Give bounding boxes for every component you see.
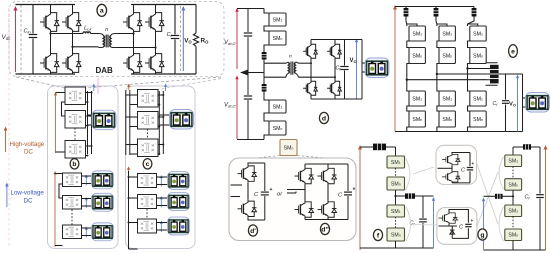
IGBT lower leg x=50.5 [40,52,59,74]
battery pod c-bottom 3 [168,217,190,235]
wire: d2 leg x=305 [304,164,306,167]
wire: d top bus [237,8,264,10]
battery pod c-top [170,110,194,130]
inductor LLk [83,32,91,34]
e col2 tap junction [436,73,438,75]
svg-text:VO: VO [184,38,192,45]
module c-top 3 [138,139,159,157]
blue arrow Vo d [355,39,358,100]
svg-text:+: + [471,218,474,223]
wire: right bridge bottom rail [131,73,196,75]
HV arrow c-top [127,84,130,91]
choke d lower arm [263,77,265,84]
SMn box e col1 row2 [409,111,425,127]
red arrow g [544,145,548,250]
IGBT top-inset upper [442,154,460,166]
svg-text:DC: DC [24,198,33,205]
wire: f top [360,146,373,148]
Vo blue arrow [181,6,185,71]
svg-text:DC: DC [24,149,33,156]
e col1 tap junction [406,79,408,81]
module c-top 2 [138,112,159,130]
SMn box d upper [269,31,286,45]
wire: left bridge lower tap to transformer [73,46,99,48]
brace g lower [499,207,504,241]
wire: right bridge leg x=133.5 [133,5,135,12]
wire: g top [512,147,514,155]
wire: d phase node lower to transformer [263,73,265,78]
blue arrow c-bottom 2 [160,196,163,208]
e column 3 choke [472,8,477,17]
wire: d-prime right leg with capacitor [264,163,266,191]
red arrow Vdc/2 lower [235,76,238,140]
IGBT d2 lower x=328 [318,201,337,219]
wire: e bottom bus [395,131,523,133]
SM1 box e col3 row1 [470,26,486,41]
wire: d bridge leg x=335 [334,40,336,44]
wire: b-top port top stub [56,92,66,94]
top inset: half-bridge submodule [436,145,477,184]
wire: bridge leg x=50.5 [50,5,52,12]
dashed callout a to module left [16,77,65,88]
wire: c-bottom bus [128,171,130,249]
brace f lower [406,207,411,241]
diode bottom inset [450,226,455,238]
IGBT d bridge lower x=311 [303,80,317,97]
d-prime outer rounded box [229,158,356,241]
choke g mid [495,194,503,199]
wire: top inset ac terminal [438,167,453,169]
label circle a [97,4,107,16]
wire: e secondary to output [501,74,523,132]
wires module b-top 3 pins [86,145,92,147]
wire: e phase line 2 [437,73,487,75]
wire: transformer to right bridge upper [115,33,133,35]
SMn box d lower [269,121,286,135]
dashed callout SMn left [238,156,280,161]
bottom inset border [437,208,477,245]
capacitor C bottom inset [465,224,471,226]
SMn box e col2 row1 [439,48,455,64]
battery pod d [365,58,389,78]
wire: output right rail [195,5,197,34]
wire: f Cf line [422,196,424,218]
wire: d2 ac terminals [287,189,305,191]
dashed callout SMn right [297,156,348,161]
callout line f-top brace to top inset [413,167,434,174]
IGBT d bridge lower x=335 [327,80,341,97]
capacitor C d2 [344,192,352,195]
svg-text:VO: VO [350,58,357,64]
wires b-bottom module 2 to pod [82,198,93,200]
wire: f mid to Cf [396,195,406,197]
blue arrow b-bottom 1 [85,175,88,186]
svg-text:n: n [289,55,292,60]
Vdc red arrow [14,6,18,72]
wire: b-bottom bottom stub [55,245,63,247]
svg-text:High-voltage: High-voltage [10,141,45,148]
svg-text:n: n [105,27,108,33]
wires module c-top 3 pins [126,144,138,146]
module c-top 1 [138,90,159,108]
wire: d2 cap leg [347,164,349,191]
SMn box e col1 row1 [409,48,425,64]
IGBT d2 upper x=305 [295,167,314,185]
wires module c-top 1 pins [126,94,138,96]
IGBT d bridge upper x=311 [303,43,317,60]
blue arrow c-top bus [164,84,167,92]
link g upper [512,167,514,179]
module b-bottom 3 [63,225,82,239]
red arrow f [358,145,362,250]
link f upper [395,168,397,177]
region e: modular matrix converter [393,5,550,132]
SM1 box e col2 row1 [439,26,455,41]
IGBT d bridge upper x=335 [327,43,341,60]
SMn box f lower [387,228,405,241]
SM1 box g upper [505,155,522,167]
wires module b-top 2 pins [86,115,92,117]
link f lower [395,217,397,228]
blue arrow g [482,198,485,251]
SM1 box e col1 row1 [409,26,425,41]
battery pod e [526,93,550,113]
SM1 box e col2 row2 [439,91,455,106]
wire: e phase line 3 [468,68,488,70]
label circle d-doubleprime [320,223,329,234]
callout line bottom inset to g upper brace [477,172,498,226]
capacitor C top inset [467,168,473,170]
module b-top 3 [65,141,86,159]
wire: midpoint to phase [248,72,264,74]
wire: g bottom [512,241,514,251]
IGBT d-prime lower [238,200,257,218]
wire: left bridge top rail [16,4,76,6]
wire c-bottom stub 2 [129,197,138,199]
svg-text:+: + [270,187,273,193]
e col3 tap junction [466,67,468,69]
wire: d bottom bus [237,139,264,141]
IGBT lower right-bridge leg x=155.5 [145,52,164,74]
SMn box f upper [387,177,405,190]
wire: f bottom [395,241,397,248]
wire c-bottom stub 1 [129,176,138,178]
label circle d-prime [248,225,257,236]
battery pod b-bottom 3 [92,223,114,241]
red rail e [393,5,397,132]
wire: left bridge bottom rail [16,73,76,75]
SMn callout box [280,140,297,156]
wires module b-top 1 pins [86,92,92,94]
wire: e col1 row1 links [407,24,417,91]
HV port arrow b-top [54,92,57,153]
wires b-bottom module 3 to pod [82,227,93,229]
wire: d phase node upper to transformer [264,62,286,64]
wire: d bridge top rail [311,39,345,41]
wire: e col3 choke drop [468,7,475,27]
wire: d-prime terminals [231,184,243,186]
wire: bottom inset top rail [449,210,468,239]
Vo dashed measure line [180,6,182,72]
region g: MMC dc-dc leg right [478,144,548,250]
battery pod b-bottom 2 [92,193,114,211]
svg-text:d': d' [250,228,256,235]
wire: b-top port bottom stub [56,151,66,153]
choke f mid [405,193,415,198]
wire: b-bottom top stub [55,173,63,175]
brace f upper [406,158,411,190]
wire: transformer to right bridge lower [115,47,155,49]
wire: d bridge leg x=311 [310,40,312,44]
SM1 box g lower [505,205,522,217]
battery pod c-bottom 1 [168,172,190,190]
wires module c-top 2 pins [126,116,138,118]
transformer e [486,63,501,85]
blue arrow b-bottom 3 [85,227,88,238]
SM1 box f upper [387,156,405,168]
wire: d2 leg x=328 [327,164,329,167]
wire: d output rail [361,40,363,100]
e column 1 choke [404,8,409,17]
wire: e top bus [395,6,474,8]
wire: f mid junction [395,190,397,205]
wire: c-top output rail 1 [158,91,160,154]
choke g top [523,144,531,149]
region c: parallel-connected modules [126,84,196,250]
wire: g mid junction [512,190,514,205]
IGBT d-prime upper [238,165,257,183]
SM1 box e col3 row2 [470,91,486,106]
wires c-bottom module 1 to pod [157,176,169,178]
dashed callout a to c-module [157,79,221,90]
wire: d2 bottom rail [305,219,348,221]
wire: top inset legs [452,153,470,183]
dashed callout a to module right [85,77,221,88]
wire: c-top input rail 1 [125,90,127,155]
svg-text:Cf: Cf [167,32,173,38]
blue arrow c-bottom 3 [160,221,163,233]
wire: e col2 choke drop [435,7,438,27]
SM1 box d upper [269,13,286,26]
IGBT upper right-bridge leg x=155.5 [145,11,164,33]
region b: series-connected modules [48,78,119,249]
module c-bottom 1 [138,174,157,188]
wire: series link b-bottom 1-2 [59,184,63,198]
wire: g mid to blue arrow [484,195,496,197]
capacitor C d-prime [261,192,269,195]
wire: e col3 row1 links [468,24,478,91]
wire: c-bottom bottom stub [129,248,138,250]
wire: e col1 row2 links [407,106,409,132]
label circle f [373,229,382,240]
region a: DAB converter [2,2,225,248]
transformer d [286,62,299,78]
wire: bottom inset mid node [439,225,458,227]
wire: e col3 row2 links [468,106,470,132]
wire: c-top output rail 2 [162,91,164,154]
link g lower [512,217,514,230]
svg-text:DAB: DAB [96,66,114,75]
SM1 box f lower [387,205,405,217]
dotted link b-top 2-3 [74,128,76,141]
IGBT d2 upper x=328 [318,167,337,185]
IGBT upper leg x=72.5 [62,11,81,33]
battery pod b-top [92,110,116,130]
region d: MMC with HF transformer [224,8,389,140]
choke f top [373,144,386,151]
svg-text:Vdc/2: Vdc/2 [224,40,236,46]
LV port arrow b-bottom [53,171,56,247]
callout line top inset to g lower brace [477,163,499,224]
blue arrow Vo e [516,75,519,132]
wire c-bottom stub 3 [129,222,138,224]
SMn box g lower [505,229,522,241]
IGBT lower right-bridge leg x=133.5 [123,52,142,74]
svg-text:Cin: Cin [24,29,32,35]
svg-text:c: c [146,161,150,168]
wire: bridge leg x=72.5 [72,5,74,12]
wire: d bridge bottom rail [311,98,345,100]
wire: c-top input rail 2 [129,90,131,155]
svg-text:b: b [72,161,76,168]
svg-text:RO: RO [201,38,210,45]
red arrow Vdc/2 upper [235,8,238,69]
module c-bottom 2 [138,195,157,209]
callout line f-bottom brace to bottom inset [414,224,438,227]
dashed border around DAB region [9,2,224,77]
orange arrow c-bottom [127,167,130,173]
Low-voltage DC arrow [5,183,9,208]
label circle b [70,159,79,169]
svg-text:+: + [353,187,356,193]
SMn box e col3 row2 [470,111,486,127]
IGBT top-inset lower [442,171,460,183]
SM1 box e col1 row2 [409,91,425,106]
capacitor Cin [29,5,37,75]
label circle e [509,45,518,58]
label circle g [478,229,487,240]
blue arrow f [432,197,435,248]
blue arrow c-bottom 1 [160,175,163,187]
wire: e col2 row1 links [437,24,447,91]
svg-text:LLk: LLk [84,26,92,32]
transformer T1 [99,34,116,48]
pink dashed border segment left of figure [8,8,10,247]
b group border [48,86,119,249]
SMn box e col3 row1 [470,48,486,64]
wire: e col2 row2 links [437,106,439,132]
IGBT upper right-bridge leg x=133.5 [123,11,142,33]
module b-top 1 [65,87,86,105]
wire: LLk to transformer [91,33,99,35]
wires b-bottom module 1 to pod [82,175,93,177]
wires c-bottom module 3 to pod [157,222,169,224]
wire: e phase line 1 [407,79,487,81]
capacitor Cf e [502,101,509,104]
SMn box e col2 row2 [439,111,455,127]
wire: g right rail with Cf [539,147,541,194]
battery pod b-bottom 1 [92,171,114,189]
capacitor Cf of DAB [171,5,179,75]
svg-text:Vdc/2: Vdc/2 [224,103,236,109]
SMn box g upper [505,179,522,191]
wire: d-prime top link [248,163,265,220]
label circle c [143,159,152,169]
wire: series link b-top 1-2 [62,102,66,116]
wire: d2 top rail [305,163,348,165]
wire: c-top pod stubs [159,114,170,116]
capacitor d upper dc-link [244,9,252,73]
resistor Ro [193,33,198,48]
svg-text:g: g [480,232,484,239]
wire: b-top pod stubs [88,114,94,116]
pink artifact line b-top [97,78,99,94]
midpoint triangle [240,70,248,76]
wire: e col1 choke drop [405,7,408,27]
IGBT d2 lower x=305 [295,201,314,219]
svg-text:a: a [100,8,104,15]
region f: MMC dc-dc leg [358,144,435,250]
wire: d stack spine lower [264,92,269,140]
dotted link b-bottom 2-3 [71,210,73,225]
IGBT lower leg x=72.5 [62,52,81,74]
wires c-bottom module 2 to pod [157,197,169,199]
SM1 box d lower [269,100,286,113]
blue arrow b-top bus [92,84,95,92]
IGBT bottom-inset [439,212,458,224]
brace g upper [499,157,504,189]
wire: e pod stubs [523,97,527,99]
region d-prime half-bridge SM detail [229,158,356,241]
module b-bottom 1 [63,173,82,187]
svg-text:d'': d'' [321,226,329,233]
wire: right bridge top rail [131,4,196,6]
top inset border [436,145,477,184]
svg-text:e: e [511,48,515,55]
capacitor Cf g [536,195,544,198]
wire: transformer d to bridge upper [299,62,312,64]
capacitor Cf f [419,219,427,222]
svg-text:+: + [472,161,475,166]
e column 2 choke [434,8,439,17]
wire: e output rail [522,74,524,132]
svg-text:d: d [322,115,326,122]
bottom inset: half-bridge with diode submodule [437,208,477,245]
module b-bottom 2 [63,196,82,210]
wire: right bridge leg x=155.5 [155,5,157,12]
capacitor d lower dc-link [244,73,252,140]
battery pod c-bottom 2 [168,193,190,211]
svg-text:Low-voltage: Low-voltage [11,190,45,197]
module b-top 2 [65,111,86,129]
IGBT upper leg x=50.5 [40,11,59,33]
dotted link c-top 2-3 [147,129,149,139]
dotted link c-bottom 2-3 [146,209,148,219]
wire: b-top output rail 2 [91,91,93,154]
wire: left bridge upper tap to LLk [51,33,84,35]
wire: d pod stubs [362,62,367,64]
c group border [126,86,196,249]
wire: d stack spine upper [264,9,269,53]
wire: b-top output rail 1 [87,91,89,154]
Vdc dashed measure line [20,5,22,74]
blue arrow b-bottom 2 [85,197,88,208]
High-voltage DC arrow [4,127,8,153]
choke d upper arm [262,52,267,60]
label circle d [319,112,328,123]
module c-bottom 3 [138,219,157,233]
capacitor Cf d [340,40,348,100]
